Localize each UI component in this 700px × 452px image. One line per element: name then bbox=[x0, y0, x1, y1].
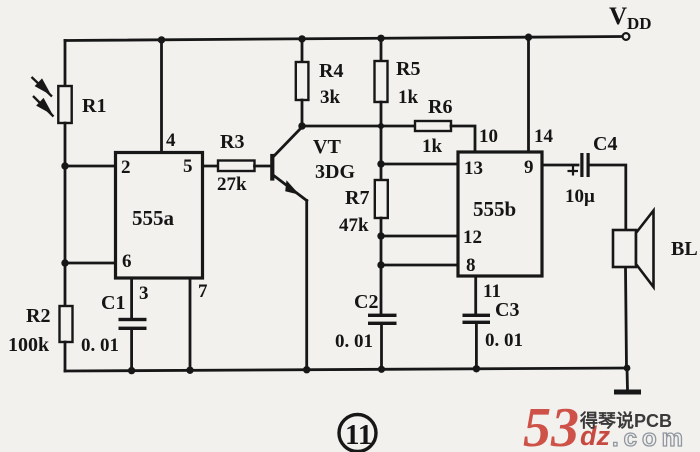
transistor VT collector bbox=[273, 127, 302, 157]
node R5 R6 bbox=[378, 123, 384, 129]
capacitor C1 plates bbox=[119, 318, 147, 330]
node C3 bottom bbox=[473, 365, 480, 372]
node pin13 bbox=[377, 160, 384, 167]
node pin4 on top rail bbox=[158, 36, 165, 43]
node R4 on top rail bbox=[298, 35, 305, 42]
wire left rail middle bbox=[64, 123, 67, 308]
svg-text:1k: 1k bbox=[422, 136, 443, 157]
svg-text:3: 3 bbox=[139, 283, 149, 304]
node C2 bottom bbox=[378, 366, 385, 373]
svg-text:V: V bbox=[609, 3, 627, 30]
wire C3 to bottom rail bbox=[475, 324, 478, 369]
wire top supply rail bbox=[65, 37, 622, 41]
svg-text:DD: DD bbox=[627, 14, 652, 33]
node C1 bottom bbox=[128, 367, 135, 374]
ground bar bbox=[614, 390, 641, 395]
resistor R4 lower lead bbox=[301, 100, 304, 126]
wire pin 14 bbox=[527, 37, 530, 152]
wire R6 to pin 10 bbox=[451, 126, 475, 152]
label VDD bbox=[609, 3, 652, 33]
svg-text:R6: R6 bbox=[428, 96, 452, 118]
svg-text:.com: .com bbox=[612, 425, 688, 452]
svg-text:C1: C1 bbox=[101, 292, 125, 314]
resistor R4 upper lead bbox=[301, 39, 304, 63]
svg-text:11: 11 bbox=[483, 281, 501, 302]
svg-text:10: 10 bbox=[479, 126, 498, 147]
wire pin 3 to C1 bbox=[130, 278, 133, 318]
resistor R5 upper lead bbox=[380, 38, 383, 62]
svg-text:3k: 3k bbox=[320, 87, 341, 108]
wire C1 to bottom rail bbox=[130, 330, 133, 371]
IC U2 555b body bbox=[458, 152, 542, 276]
svg-text:53: 53 bbox=[523, 397, 579, 452]
wire left rail lower bbox=[64, 342, 67, 371]
svg-text:BL: BL bbox=[671, 238, 698, 260]
svg-text:100k: 100k bbox=[8, 334, 50, 356]
IC U1 555a body bbox=[116, 153, 203, 279]
svg-text:5: 5 bbox=[183, 156, 193, 177]
svg-text:0. 01: 0. 01 bbox=[485, 330, 523, 351]
svg-text:2: 2 bbox=[121, 157, 131, 178]
wire speaker to ground bbox=[626, 267, 627, 368]
wire C2 to bottom rail bbox=[380, 325, 383, 370]
transistor VT emitter bbox=[273, 175, 307, 201]
svg-text:13: 13 bbox=[464, 158, 483, 179]
svg-text:R5: R5 bbox=[396, 58, 420, 80]
light arrows for R1 bbox=[32, 77, 54, 117]
wire pin 2 to left rail bbox=[65, 165, 116, 168]
node collector R4 bbox=[298, 122, 305, 129]
resistor R1 bbox=[58, 86, 71, 123]
wire pin 8 bbox=[381, 264, 458, 267]
svg-text:7: 7 bbox=[198, 281, 208, 302]
svg-text:C2: C2 bbox=[354, 291, 378, 313]
wire pin 9 lead bbox=[542, 164, 578, 167]
wire pin 13 bbox=[381, 163, 458, 166]
transistor VT emitter arrowhead bbox=[285, 180, 299, 195]
capacitor C2 plates bbox=[368, 314, 397, 325]
svg-text:4: 4 bbox=[166, 130, 176, 151]
svg-text:R7: R7 bbox=[345, 187, 369, 209]
node ground junction bbox=[624, 365, 631, 372]
ground lead bbox=[626, 368, 629, 390]
svg-text:3DG: 3DG bbox=[315, 161, 355, 183]
wire bottom rail bbox=[65, 368, 628, 371]
wire R5 to R7 column bbox=[380, 126, 383, 181]
node emitter bottom bbox=[303, 366, 310, 373]
capacitor C3 plates bbox=[463, 314, 491, 324]
resistor R6 bbox=[415, 121, 451, 131]
svg-text:9: 9 bbox=[524, 157, 534, 178]
wire pin 5 lead bbox=[203, 165, 219, 168]
node VDD terminal bbox=[623, 33, 630, 40]
node pin8 bbox=[377, 261, 384, 268]
svg-text:R4: R4 bbox=[319, 60, 343, 82]
svg-text:VT: VT bbox=[313, 136, 341, 158]
svg-text:R1: R1 bbox=[82, 95, 106, 117]
svg-text:27k: 27k bbox=[217, 174, 247, 195]
wire node collector/R4/R5/R6 bbox=[302, 125, 415, 128]
resistor R7 bbox=[375, 180, 388, 218]
svg-text:11: 11 bbox=[345, 419, 372, 451]
speaker BL bbox=[613, 211, 654, 288]
node R5 on top rail bbox=[377, 35, 384, 42]
svg-text:14: 14 bbox=[534, 126, 554, 147]
wire pin 4 bbox=[160, 40, 163, 153]
transistor VT base bar bbox=[270, 156, 274, 179]
wire pin 6 to left rail bbox=[65, 262, 116, 265]
svg-text:0. 01: 0. 01 bbox=[81, 335, 119, 356]
svg-text:12: 12 bbox=[463, 227, 482, 248]
wire pin 7 to bottom rail bbox=[189, 278, 192, 371]
svg-text:R3: R3 bbox=[220, 131, 244, 153]
wire pin 11 bbox=[474, 276, 477, 314]
svg-text:C4: C4 bbox=[593, 133, 617, 155]
wire R3 to base bbox=[255, 165, 272, 168]
svg-text:555b: 555b bbox=[473, 197, 516, 221]
svg-text:10μ: 10μ bbox=[565, 186, 595, 207]
node pin14 on top rail bbox=[525, 34, 532, 41]
resistor R5 bbox=[375, 61, 388, 102]
svg-text:C3: C3 bbox=[495, 299, 519, 321]
node pin6 on left rail bbox=[61, 259, 68, 266]
resistor R5 lower lead bbox=[380, 102, 383, 126]
svg-text:47k: 47k bbox=[339, 215, 369, 236]
figure number 11 circle bbox=[339, 415, 376, 452]
wire C4 to speaker bbox=[590, 165, 626, 230]
capacitor C4 plus sign bbox=[568, 166, 579, 176]
capacitor C4 plates bbox=[580, 153, 589, 177]
svg-text:555a: 555a bbox=[132, 206, 175, 230]
resistor R4 bbox=[296, 62, 309, 100]
node pin12 bbox=[377, 232, 384, 239]
wire emitter down bbox=[305, 201, 308, 371]
svg-text:0. 01: 0. 01 bbox=[335, 331, 373, 352]
resistor R3 bbox=[218, 161, 255, 172]
svg-text:6: 6 bbox=[122, 251, 132, 272]
svg-text:8: 8 bbox=[466, 255, 476, 276]
svg-text:R2: R2 bbox=[26, 305, 50, 327]
resistor R2 bbox=[60, 306, 73, 342]
svg-text:1k: 1k bbox=[398, 87, 419, 108]
wire left rail upper bbox=[64, 41, 67, 89]
node pin2 on left rail bbox=[61, 162, 68, 169]
wire R7 to C2 column bbox=[380, 218, 383, 314]
node pin7 bottom bbox=[186, 367, 193, 374]
wire pin 12 bbox=[381, 235, 458, 238]
